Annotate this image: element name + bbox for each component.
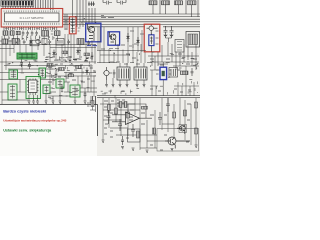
svg-text:IC 1 LC7 SM5-8750: IC 1 LC7 SM5-8750: [20, 16, 44, 20]
IC2 pins: [27, 79, 39, 96]
label left of Q3: [65, 21, 68, 30]
wire caps join: [166, 38, 172, 42]
label near op-amp: [129, 110, 145, 124]
IC1 body: [5, 13, 60, 22]
RC network row under IC1: [2, 39, 90, 46]
diode D3: [53, 50, 56, 58]
ceramic filter CF1 highlight box (blue): [160, 67, 167, 79]
capacitor C10: [103, 0, 112, 5]
wire panel corner feeds: [93, 96, 96, 112]
junction dots: [5, 16, 198, 75]
wire IC1 bottom pins down: [4, 27, 57, 30]
resistor R11: [59, 68, 65, 71]
diode D2: [137, 37, 140, 46]
wire verticals B2-R3 gap: [128, 27, 142, 52]
P2 inner: [10, 85, 15, 99]
double box right inner: [177, 42, 182, 51]
component noise row y56-63: [46, 57, 93, 61]
resistor R10: [47, 64, 53, 67]
T2 inner: [45, 86, 49, 93]
ground G33: [195, 145, 198, 147]
background scan paper: [0, 0, 200, 156]
resistor R1 top: [149, 1, 157, 5]
diode D1: [127, 33, 130, 42]
wire bus vertical right of IC1: [65, 0, 95, 30]
value label texture mid belt: [45, 57, 90, 61]
net label 10k SL10k: [101, 15, 114, 17]
preset P1 highlight box (green): [9, 70, 18, 79]
svg-text:Bardzo czyste niebieski: Bardzo czyste niebieski: [3, 110, 46, 114]
T21 windings: [136, 69, 146, 79]
label R41: [87, 103, 90, 106]
resistor R41: [91, 101, 94, 107]
connector strip J1: [1, 1, 34, 7]
component noise right mid-low: [150, 89, 191, 92]
capacitor C23: [84, 92, 87, 98]
wire stub texture: [45, 56, 197, 98]
coil T3 highlight box (green): [56, 79, 64, 88]
capacitor C27: [69, 56, 72, 63]
resistor R15: [68, 74, 74, 77]
capacitor C37: [191, 68, 194, 76]
label row under IC1 pins: [5, 28, 55, 30]
capacitor C22: [61, 84, 64, 92]
coil T4 highlight box (green): [70, 85, 80, 97]
resistor R13: [62, 51, 68, 54]
panel border: [0, 104, 98, 136]
decoupling network under IC1: [3, 31, 60, 37]
value label texture mid low: [101, 89, 139, 94]
ground G31: [132, 148, 135, 150]
resistor R40: [124, 102, 127, 108]
wire right mid horizontals: [148, 56, 199, 70]
svg-text:Uświetlijcie wyświetlaczu niep: Uświetlijcie wyświetlaczu niepłynke op.2…: [3, 119, 66, 123]
component noise bottom right: [150, 104, 191, 150]
ground G22: [119, 85, 122, 87]
wire CF1 stubs: [158, 62, 168, 96]
IC1 pin numbers bottom row: [4, 23, 59, 25]
resistor R30: [108, 105, 111, 111]
wire grid lower-left: [0, 80, 97, 101]
resistor R39: [119, 102, 122, 108]
filter bar FB1 highlight (green filled): [17, 53, 37, 59]
wire mesh left mid verticals: [5, 36, 58, 41]
capacitor C11: [117, 0, 126, 5]
resistor R36: [195, 102, 198, 108]
ground G25: [143, 85, 146, 87]
ground G34: [171, 149, 174, 151]
wire mesh left mid horizontals: [0, 41, 96, 49]
wire top component stubs: [153, 0, 198, 17]
transistor Q4: [177, 125, 185, 134]
capacitor C35: [166, 98, 170, 112]
output stage enclosure box: [157, 129, 199, 152]
resistor R34: [173, 112, 176, 118]
FB1 inner marks: [19, 54, 36, 59]
coil T1 highlight box (green): [39, 68, 46, 78]
T4 inner: [72, 86, 78, 96]
component noise right mid: [150, 54, 197, 65]
capacitor C24: [113, 70, 116, 79]
label CF1: [156, 70, 171, 74]
IC2 inner dots: [31, 83, 36, 89]
transistor Q2: [110, 32, 116, 45]
resistor R42: [181, 71, 189, 75]
coil T2 highlight box (green): [43, 85, 50, 94]
T22 inner: [171, 69, 176, 76]
T1 inner: [41, 69, 45, 77]
wire transformer stubs: [107, 63, 145, 85]
resistor R35: [184, 110, 187, 116]
ground G23: [126, 85, 129, 87]
IC2 body: [29, 80, 38, 93]
T20 windings: [119, 69, 129, 79]
transistor Q20: [103, 67, 112, 80]
ground G20: [105, 85, 108, 87]
inductor L1: [162, 1, 170, 5]
ground G35: [121, 147, 124, 149]
ground G24: [136, 85, 139, 87]
value label texture right column: [152, 52, 198, 92]
capacitor C12: [164, 26, 168, 38]
CF1 core: [162, 71, 165, 76]
resistor R14: [84, 53, 90, 56]
capacitor C38: [121, 136, 129, 145]
component labels bottom left column: [104, 100, 126, 137]
wire middle column verticals: [98, 27, 145, 63]
label inside R3: [156, 31, 159, 44]
crystal X1 inner mark: [150, 34, 153, 52]
transistor Q2 highlight box (blue): [108, 32, 120, 45]
label above T20: [110, 62, 140, 64]
Q4 enclosure: [179, 125, 187, 133]
wire right mid-low: [150, 66, 199, 96]
op-amp U2: [126, 112, 140, 125]
wire mesh long verticals: [2, 34, 95, 104]
notes panel: [0, 105, 97, 156]
T3 inner: [58, 80, 62, 87]
capacitor C21: [28, 62, 31, 70]
wire mesh mid-lower horizontals: [0, 62, 96, 76]
resistor R37: [195, 128, 198, 134]
wire feeds from top edge to bus: [36, 0, 54, 10]
IC1 highlight box (red): [1, 9, 63, 28]
capacitor C28: [91, 52, 94, 60]
transistor Q3 contents: [71, 18, 75, 34]
component noise mid: [101, 45, 136, 58]
resistor R31: [115, 108, 118, 114]
svg-text:Ustawki serw. sklękaturcja: Ustawki serw. sklękaturcja: [3, 128, 52, 132]
ground G21: [112, 85, 115, 87]
capacitor C29: [55, 70, 58, 77]
transistor Q5: [165, 137, 190, 149]
wire right mid verticals: [152, 42, 196, 70]
wire connector pins down: [3, 6, 33, 9]
capacitor C20: [20, 60, 23, 68]
filter FL1 box: [186, 32, 200, 48]
crystal X1 (blue box): [149, 35, 154, 46]
resistor R32: [127, 112, 130, 118]
diode D4: [77, 48, 80, 56]
capacitor C32: [107, 110, 111, 124]
label marks y66-76: [50, 64, 96, 72]
wire bottom right verticals: [103, 98, 196, 150]
resistor R2 top: [175, 1, 183, 5]
resistor R3 top: [188, 1, 197, 5]
relay box K1: [30, 40, 39, 46]
ground G32: [146, 150, 149, 152]
capacitor C33: [131, 124, 135, 137]
op-amp U2 input stubs: [112, 104, 152, 122]
IC2 highlight box (green, large): [26, 77, 41, 99]
wire lower-left verticals: [20, 62, 94, 97]
label gap marks: [129, 31, 144, 46]
capacitor C34: [158, 112, 162, 125]
IF can T22: [169, 68, 178, 78]
wire long horizontal rails y95-98: [97, 95, 200, 97]
value label texture left belt: [7, 60, 38, 73]
resistor R33: [137, 131, 140, 138]
ground row under IC2: [28, 94, 93, 104]
P1 inner: [11, 71, 16, 78]
IC1 pin numbers top row: [4, 10, 59, 12]
transistor Q3 highlight box (red, narrow): [69, 17, 76, 34]
IF transformer T20: [117, 67, 130, 80]
preset P2 highlight box (green): [8, 84, 17, 100]
ground G30: [102, 140, 105, 142]
capacitor C13: [170, 26, 174, 38]
filter FL1 inner: [188, 34, 198, 45]
crystal X1 highlight box (red): [144, 24, 160, 52]
resistor R43 feedback: [142, 106, 148, 109]
IF transformer T21: [134, 67, 147, 80]
double box right: [175, 40, 184, 53]
diode D5: [86, 68, 89, 76]
wire bus horizontal: [63, 14, 200, 27]
wire middle horizontals: [97, 51, 152, 63]
node marks 11: [88, 2, 95, 7]
label under Q2: [109, 48, 119, 50]
resistor R38: [153, 128, 156, 134]
capacitor C36: [118, 119, 122, 131]
wire R41 stubs: [90, 96, 96, 112]
box around R38: [128, 129, 141, 142]
wire bottom right horizontals: [100, 104, 174, 148]
net label SL 10k: [87, 45, 97, 47]
label right of Q3: [78, 22, 81, 31]
resistor R12: [76, 66, 82, 69]
trimmer VC1: [147, 25, 158, 35]
component noise row y79-84: [48, 77, 90, 82]
transistor Q1: [88, 24, 95, 41]
value label texture lowerleft belt: [47, 80, 95, 99]
transistor Q1 highlight box (blue): [86, 23, 101, 42]
value label texture lower belt: [45, 64, 96, 77]
